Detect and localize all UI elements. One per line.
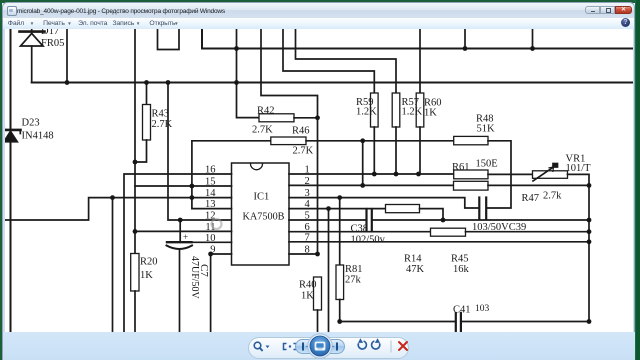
svg-text:2.7K: 2.7K: [252, 125, 273, 136]
resistor R57: [392, 93, 400, 174]
watermark cursor: [212, 219, 222, 229]
svg-text:1K: 1K: [424, 108, 437, 119]
svg-text:13: 13: [205, 199, 216, 210]
window icon: [7, 6, 17, 16]
resistor R59: [371, 93, 379, 174]
svg-text:2.7k: 2.7k: [543, 191, 562, 202]
resistor R46: [192, 137, 454, 145]
svg-text:27k: 27k: [345, 275, 362, 286]
wire vertical x420 to R60: [419, 29, 421, 93]
svg-text:IC1: IC1: [254, 192, 270, 203]
wire main bus y82: [32, 82, 633, 84]
svg-text:3: 3: [305, 188, 310, 199]
svg-text:R20: R20: [140, 257, 158, 268]
diode D23: [4, 126, 21, 142]
resistor R40: [314, 277, 322, 332]
wire bottom bus right: [461, 321, 589, 323]
wire pin15: [135, 185, 232, 187]
svg-text:IN4148: IN4148: [22, 131, 54, 142]
resistor R81: [336, 198, 344, 322]
svg-text:R47: R47: [522, 193, 540, 204]
svg-text:5: 5: [305, 211, 310, 222]
desktop green edges: [0, 0, 640, 3]
help button: [621, 18, 630, 27]
svg-text:2: 2: [305, 176, 310, 187]
svg-text:150E: 150E: [476, 159, 498, 170]
svg-text:2.7K: 2.7K: [152, 119, 173, 130]
svg-text:R45: R45: [451, 254, 469, 265]
wire pin16: [124, 174, 232, 332]
wire pin13: [192, 141, 232, 209]
wire pin6 net: [289, 231, 431, 233]
svg-text:8: 8: [305, 245, 310, 256]
wire main bus y48: [202, 29, 633, 49]
resistor R43: [135, 83, 151, 163]
title text: [17, 8, 225, 15]
svg-text:KA7500B: KA7500B: [243, 212, 285, 223]
wire pin7 net: [289, 241, 589, 243]
potentiometer VR1: [533, 164, 590, 186]
svg-text:1.2K: 1.2K: [356, 107, 377, 118]
svg-text:1K: 1K: [301, 291, 314, 302]
svg-text:47UF/50V: 47UF/50V: [189, 256, 200, 300]
wire pin11: [135, 230, 232, 232]
menu bar: [3, 18, 634, 30]
svg-text:R14: R14: [404, 254, 422, 265]
svg-text:16: 16: [205, 165, 216, 176]
svg-text:+: +: [183, 232, 188, 242]
svg-text:10: 10: [205, 233, 216, 244]
svg-text:16k: 16k: [453, 264, 470, 275]
svg-text:R81: R81: [345, 264, 363, 275]
svg-text:1K: 1K: [140, 270, 153, 281]
wire bottom bus: [340, 321, 456, 323]
resistor R47: [454, 181, 590, 190]
bottom toolbar: [3, 332, 635, 360]
wire pin2 net: [289, 184, 454, 186]
wire stub x465: [464, 29, 466, 49]
wire staircase to R59: [283, 29, 374, 93]
svg-text:51K: 51K: [477, 124, 496, 135]
resistor R20: [131, 254, 139, 332]
svg-text:103: 103: [475, 304, 490, 314]
svg-text:C38: C38: [351, 224, 369, 235]
svg-text:47K: 47K: [406, 264, 425, 275]
capacitor C39: [479, 198, 486, 219]
op-amp IC1 KA7500B body: [232, 163, 290, 265]
resistor R60: [416, 93, 424, 174]
title bar: [3, 3, 634, 18]
wire pin8 stub: [289, 253, 318, 255]
wire vertical x67: [66, 29, 68, 83]
wire vertical x112: [112, 198, 114, 332]
wire R46-pin2 link x362: [362, 141, 364, 186]
svg-text:R46: R46: [292, 126, 310, 137]
svg-text:R61: R61: [452, 162, 470, 173]
resistor R48: [454, 136, 511, 208]
svg-text:1.2K: 1.2K: [402, 107, 423, 118]
wire pin12 net x169: [168, 83, 232, 221]
wire top loop U1: [158, 29, 180, 50]
capacitor C41: [456, 313, 461, 332]
capacitor C38: [367, 209, 372, 230]
wire pin4 net: [289, 208, 386, 210]
svg-text:2.7K: 2.7K: [293, 146, 314, 157]
resistor R45: [431, 228, 590, 236]
resistor R14: [386, 205, 444, 221]
svg-text:103/50VC39: 103/50VC39: [472, 222, 526, 233]
svg-text:FR05: FR05: [41, 38, 64, 49]
svg-text:R43: R43: [152, 109, 170, 120]
wire staircase to R57: [296, 29, 397, 93]
wire pin1 net: [289, 173, 454, 175]
wire pin9: [211, 254, 232, 332]
wire pin14: [5, 198, 232, 220]
svg-text:C41: C41: [453, 305, 471, 316]
wire vertical x236 to R42: [237, 29, 260, 118]
svg-text:D17: D17: [41, 29, 59, 37]
svg-text:4: 4: [305, 199, 311, 210]
svg-text:15: 15: [205, 177, 216, 188]
diode D17: [20, 29, 45, 83]
wire pin5 net: [289, 219, 366, 221]
wire pin10: [192, 241, 232, 243]
svg-text:1: 1: [305, 165, 310, 176]
wire left rail x10: [10, 29, 12, 332]
svg-text:102/50v: 102/50v: [351, 235, 386, 246]
wire pin3 net: [289, 198, 479, 208]
wire vertical x328: [328, 209, 330, 332]
wire right rail x589: [588, 185, 590, 321]
resistor R42: [259, 114, 318, 122]
svg-text:7: 7: [305, 232, 310, 243]
svg-text:14: 14: [205, 188, 216, 199]
window buttons: [585, 6, 600, 14]
capacitor C7: [167, 220, 193, 332]
wire pin5 net right: [372, 219, 589, 221]
svg-text:101/T: 101/T: [566, 163, 592, 174]
wire vertical x135 rail: [134, 29, 136, 254]
wire vertical x261 staircase to pin8 column: [261, 29, 318, 254]
svg-text:D23: D23: [22, 118, 40, 129]
svg-text:R40: R40: [299, 280, 317, 291]
svg-text:9: 9: [210, 245, 215, 256]
svg-text:R42: R42: [257, 106, 275, 117]
resistor R61: [454, 170, 533, 179]
wire stub x532: [532, 29, 534, 49]
